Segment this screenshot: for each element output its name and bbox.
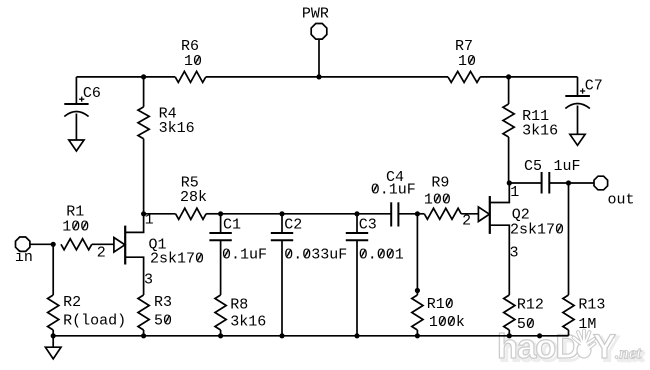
svg-text:3k16: 3k16 [230,314,266,331]
label C3 value [359,217,404,264]
resistor R12 [504,295,515,330]
wire in to R1 [30,243,53,245]
junction C3 bottom [354,333,359,338]
wire R3 to rail [143,330,145,336]
wire C3 top lead [356,214,358,233]
wire top rail left (C6 to R6) [76,76,175,78]
svg-text:C5: C5 [524,158,542,175]
junction R10 bottom [415,333,420,338]
svg-text:2: 2 [97,245,106,262]
label C2 value [284,217,347,264]
svg-text:in: in [15,249,33,266]
svg-text:Y: Y [593,328,616,366]
label R3 value [154,294,172,329]
wire C6 to ground [75,114,77,141]
junction R2 bottom / ground [51,333,56,338]
node out terminal [594,176,608,190]
label R8 value [230,297,266,331]
wire bottom rail [53,335,568,337]
wire R13 to rail [568,330,570,336]
wire ground lead [52,336,54,347]
label Q2 [510,207,564,239]
label PWR [302,6,329,23]
wire C1 node to C2 node [221,213,282,215]
junction R12 bottom [507,333,512,338]
wire R8 to rail [220,330,222,336]
svg-text:2: 2 [462,213,471,230]
node PWR terminal [311,24,327,40]
label R11 value [522,108,558,139]
junction C1 top [218,211,223,216]
wire R5 to C1 node [206,213,221,215]
wire top rail right (R7 to C7) [480,76,577,78]
svg-text:.net: .net [615,344,642,363]
svg-text:R12: R12 [517,297,544,314]
junction C3 top [354,211,359,216]
svg-text:100k: 100k [429,314,465,331]
junction bottom mid [537,333,542,338]
wire R11 to Q2 drain node [508,137,510,183]
label R13 value [578,297,605,333]
svg-text:R8: R8 [230,297,248,314]
junction PWR on rail [316,74,321,79]
wire C4 to R9 node [398,213,417,215]
label C7 [585,77,603,94]
capacitor C2 [271,233,293,240]
resistor R9 [424,208,461,219]
svg-text:1uF: 1uF [554,158,581,175]
resistor R8 [215,295,226,330]
junction R8 bottom [218,333,223,338]
watermark haoDIY.net [497,328,645,369]
wire R2 top lead [52,244,54,295]
transistor Q2 drain lead [490,183,510,203]
label R12 value [517,297,544,333]
transistor Q1 gate arrow [114,238,125,253]
label C1 value [222,217,267,264]
wire Q1 drain to R5 [144,213,176,215]
svg-text:3: 3 [510,245,519,262]
wire R9 node to R10 [416,214,418,291]
ground under C7 [570,134,585,145]
wire R10 to rail [416,330,418,336]
label R6 value [181,38,202,70]
capacitor C1 [209,233,231,240]
wire C2 node to C3 node [282,213,357,215]
capacitor C3 [346,233,368,240]
junction C2 top [279,211,284,216]
pin 2 of Q1 [97,245,106,262]
ground under C6 [69,140,84,151]
resistor R13 [563,295,574,330]
svg-text:PWR: PWR [302,6,329,23]
svg-text:R13: R13 [578,297,605,314]
svg-text:2sk170: 2sk170 [510,222,564,239]
transistor Q1 drain lead [125,214,143,233]
capacitor C4 [391,202,398,226]
svg-text:out: out [608,192,635,209]
label R1 value [62,204,89,236]
wire PWR to rail [318,39,320,77]
wire R9 node lead [417,213,424,215]
transistor Q1 channel [124,226,126,265]
wire R11 upper lead [508,77,510,104]
wire C7 to ground [577,106,579,135]
capacitor C7 [565,88,590,108]
wire C1 to R8 [220,240,222,295]
svg-text:C6: C6 [83,85,101,102]
wire R12 to rail [508,330,510,336]
label R9 value [424,175,451,209]
junction R11 top [506,74,511,79]
wire R4 upper lead [143,77,145,107]
junction R4 top [141,74,146,79]
wire R9 to Q2 gate [461,213,478,215]
pin 3 of Q1 [144,272,153,289]
junction C2 bottom [279,333,284,338]
label C6 [83,85,101,102]
svg-text:10: 10 [458,53,476,70]
junction Q2 drain node [507,180,512,185]
ground main [45,347,61,359]
svg-text:100: 100 [62,219,89,236]
svg-text:R10: R10 [427,296,454,313]
svg-text:R2: R2 [63,294,81,311]
wire C2 to rail [281,240,283,335]
svg-text:C3: C3 [359,217,377,234]
junction out node [566,180,571,185]
svg-text:10: 10 [184,53,202,70]
transistor Q2 source lead [490,225,510,295]
wire C3 node to C4 [357,213,391,215]
svg-text:R9: R9 [431,175,449,192]
wire C2 top lead [281,214,283,233]
wire C6 to rail [75,77,77,104]
resistor R5 [176,208,207,219]
wire C7 to rail [577,77,579,96]
wire C5 to out node [549,182,568,184]
resistor R3 [138,295,149,330]
node in terminal [16,237,30,251]
junction Q1 drain node [141,211,146,216]
wire top rail (R6 to R7) [206,76,448,78]
label in [15,249,33,266]
svg-text:C1: C1 [223,217,241,234]
svg-text:1: 1 [510,184,519,201]
label R10 value [427,296,465,331]
wire R4 to Q1 drain node [143,139,145,214]
pin 1 of Q2 [510,184,519,201]
label Q1 [149,237,205,268]
label C4 value [371,169,416,199]
svg-text:0.1uF: 0.1uF [222,247,267,264]
svg-text:0.033uF: 0.033uF [284,247,347,264]
pin 2 of Q2 [462,213,471,230]
label R5 value [180,174,207,206]
svg-text:3k16: 3k16 [159,120,195,137]
resistor R10 [412,295,423,330]
wire C3 to rail [356,240,358,335]
pin 1 of Q1 [145,212,154,229]
wire out node to terminal [569,182,595,184]
transistor Q1 source lead [125,257,143,295]
svg-text:50: 50 [517,316,535,333]
svg-text:3: 3 [144,272,153,289]
label C5 value [524,158,581,175]
svg-text:C7: C7 [585,77,603,94]
transistor Q2 channel [489,196,491,234]
resistor R6 [175,71,206,82]
label R2 value [63,294,126,329]
junction R10 top [415,288,420,293]
junction R1 left / R2 top [51,242,56,247]
wire Q2 drain to C5 [509,182,541,184]
capacitor C6 [64,97,88,117]
resistor R7 [448,71,480,82]
pin 3 of Q2 [510,245,519,262]
label R7 value [455,38,476,70]
transistor Q2 gate arrow [478,207,489,222]
svg-text:50: 50 [154,312,172,329]
junction R3 bottom [141,333,146,338]
svg-text:100: 100 [424,192,451,209]
svg-text:0.1uF: 0.1uF [371,181,416,198]
resistor R1 [61,239,92,250]
wire R1 to Q1 gate [92,243,114,245]
label out [608,192,635,209]
svg-text:0.001: 0.001 [359,247,404,264]
capacitor C5 [542,172,550,194]
wire R13 top lead [568,183,570,295]
wire C1 top lead [220,214,222,233]
resistor R2 [48,295,59,330]
junction R9 left / R10 top [415,211,420,216]
resistor R4 [138,107,149,139]
svg-text:1M: 1M [578,316,596,333]
wire R10 upper lead [416,291,418,296]
svg-text:3k16: 3k16 [522,123,558,140]
svg-text:28k: 28k [180,189,207,206]
svg-text:C2: C2 [284,217,302,234]
svg-text:R(load): R(load) [63,312,126,329]
svg-text:R3: R3 [154,294,172,311]
label R4 value [159,105,195,137]
wire R2 to rail [52,330,54,336]
svg-text:2sk170: 2sk170 [150,251,204,268]
resistor R11 [503,104,514,137]
